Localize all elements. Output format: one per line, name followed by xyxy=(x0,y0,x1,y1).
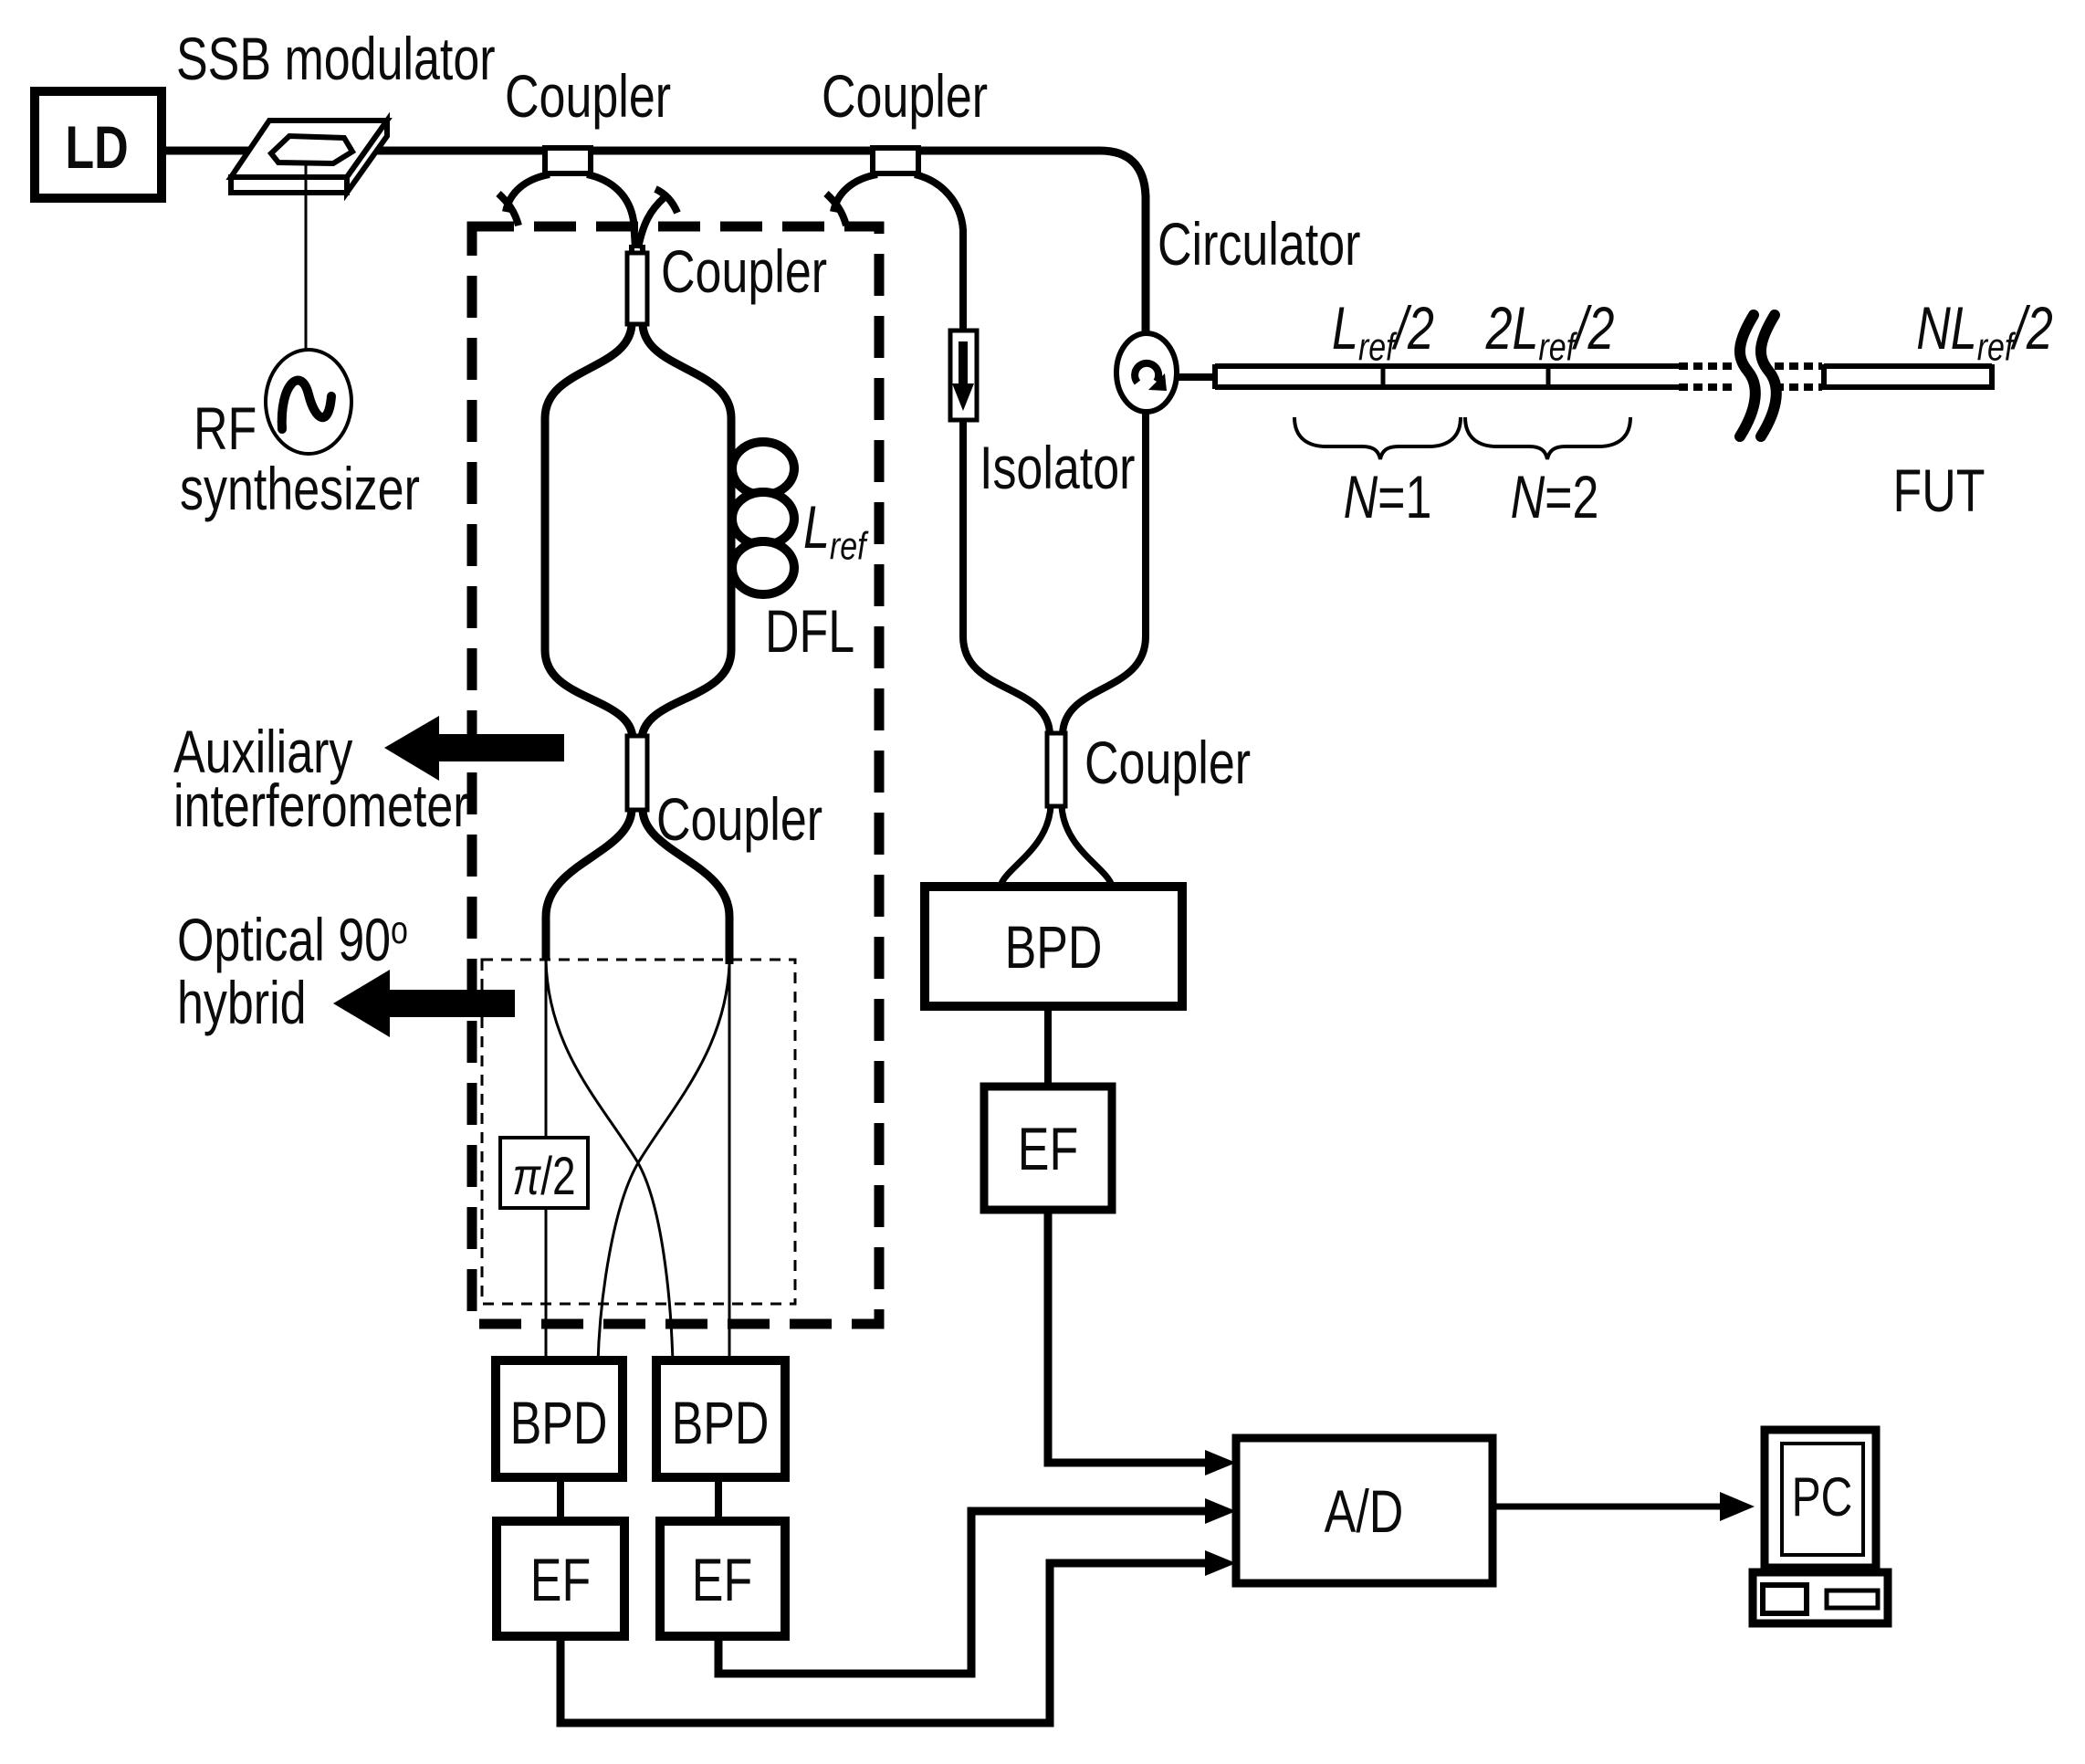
wire: BPD-EF right xyxy=(1044,1006,1052,1087)
svg-text:LD: LD xyxy=(65,113,128,181)
label: PC xyxy=(1792,1466,1853,1528)
wire: BPD-EF left xyxy=(557,1477,564,1521)
label: RF xyxy=(194,394,257,462)
label: Isolator xyxy=(980,434,1135,501)
wire: hybrid thin straight right xyxy=(728,964,731,1363)
auxiliary interferometer dashed box xyxy=(472,226,879,1324)
FUT dotted section xyxy=(1679,366,1822,387)
wire: aux loop right side xyxy=(642,324,731,738)
BPD right box xyxy=(925,887,1182,1006)
svg-text:Isolator: Isolator xyxy=(980,434,1135,501)
wire: cut fiber hook xyxy=(655,189,677,213)
coupler C2 on main line xyxy=(873,148,918,173)
FUT divider 2 xyxy=(1546,364,1551,390)
label: Coupler aux bottom xyxy=(656,785,822,853)
isolator arrow xyxy=(959,341,968,383)
svg-text:RF: RF xyxy=(194,394,257,462)
wire: aux bottom coupler neck xyxy=(631,730,644,813)
wire: EF left to A/D bottom input xyxy=(561,1563,1209,1723)
label: SSB modulator xyxy=(176,25,496,92)
PC base xyxy=(1753,1572,1888,1623)
wire: hybrid crossing left-to-right xyxy=(546,960,673,1363)
svg-text:BPD: BPD xyxy=(672,1389,770,1456)
label: EF right xyxy=(1018,1115,1078,1182)
wire: EF right to A/D top input xyxy=(1048,1210,1209,1463)
wire: A/D to PC xyxy=(1493,1504,1722,1510)
wire: circulator down branch to coupler xyxy=(1063,411,1146,734)
SSB modulator side face xyxy=(347,121,387,193)
wire: cut fiber at aux coupler input xyxy=(638,197,665,248)
label: interferometer xyxy=(173,772,469,839)
wire: coupler2 left hook xyxy=(826,194,846,226)
wire: coupler1 right arc into aux coupler xyxy=(587,174,635,248)
PC monitor xyxy=(1765,1430,1876,1568)
svg-text:Coupler: Coupler xyxy=(661,237,827,305)
wire: coupler2 right arc down to isolator branch xyxy=(915,174,1050,734)
coupler (aux bottom) xyxy=(627,736,647,810)
BPD mid box xyxy=(656,1360,785,1477)
label: Lref/2 xyxy=(1332,294,1434,369)
wire: hybrid thin straight left xyxy=(545,960,548,1363)
label: Coupler above C2 xyxy=(822,62,988,130)
label: hybrid xyxy=(177,969,307,1036)
DFL coil ellipse 3 xyxy=(732,541,794,594)
wire: EF mid to A/D middle input xyxy=(718,1511,1209,1674)
svg-text:N=2: N=2 xyxy=(1511,463,1599,530)
RF sine symbol xyxy=(282,381,331,429)
wire: coupler2 left drop arc xyxy=(833,174,877,212)
svg-text:Coupler: Coupler xyxy=(505,62,671,130)
wire: coupler1 left hook xyxy=(498,194,519,226)
label: NLref/2 xyxy=(1916,294,2053,369)
label: BPD left xyxy=(510,1389,608,1456)
svg-text:N=1: N=1 xyxy=(1344,463,1432,530)
DFL coil ellipse 1 xyxy=(732,442,794,495)
label: A/D xyxy=(1325,1477,1404,1545)
svg-text:hybrid: hybrid xyxy=(177,969,307,1036)
svg-text:FUT: FUT xyxy=(1892,457,1985,524)
label: L_ref xyxy=(803,493,869,568)
label: EF left xyxy=(530,1546,591,1613)
circulator arrow symbol xyxy=(1135,363,1158,383)
svg-text:Coupler: Coupler xyxy=(1084,729,1251,796)
label: synthesizer xyxy=(180,455,420,522)
EF mid box xyxy=(660,1521,785,1636)
optical 90 hybrid dotted box xyxy=(482,960,795,1304)
FUT break symbol xyxy=(1740,315,1755,436)
wire: flare into BPD right xyxy=(1001,806,1051,886)
svg-text:BPD: BPD xyxy=(510,1389,608,1456)
brace N=2 xyxy=(1465,417,1630,459)
svg-text:Optical 90o: Optical 90o xyxy=(177,906,408,973)
label: EF mid xyxy=(692,1546,752,1613)
label: BPD mid xyxy=(672,1389,770,1456)
svg-text:π/2: π/2 xyxy=(512,1148,575,1206)
label: Auxiliary xyxy=(173,718,353,785)
svg-text:BPD: BPD xyxy=(1005,913,1103,981)
wire: RF feed line xyxy=(305,164,308,352)
EF right box xyxy=(984,1087,1112,1210)
DFL coil ellipse 2 xyxy=(732,492,794,545)
EF left box xyxy=(497,1521,624,1636)
coupler C1 on main line xyxy=(545,148,591,173)
wire: hybrid thick flare right xyxy=(643,810,729,964)
label: Coupler aux top xyxy=(661,237,827,305)
label: BPD right xyxy=(1005,913,1103,981)
svg-text:synthesizer: synthesizer xyxy=(180,455,420,522)
svg-text:Circulator: Circulator xyxy=(1158,210,1360,278)
svg-text:EF: EF xyxy=(692,1546,752,1613)
coupler (aux top) xyxy=(627,253,647,324)
svg-text:EF: EF xyxy=(1018,1115,1078,1182)
label: Coupler above C1 xyxy=(505,62,671,130)
BPD left box xyxy=(496,1360,623,1477)
SSB racetrack waveguide xyxy=(271,136,352,163)
label: 2Lref/2 xyxy=(1485,294,1615,369)
label: DFL xyxy=(765,597,854,665)
wire: circulator to FUT stub xyxy=(1177,373,1215,381)
isolator box xyxy=(950,331,977,420)
label: N=2 xyxy=(1511,463,1599,530)
brace N=1 xyxy=(1294,417,1461,459)
FUT divider 1 xyxy=(1381,364,1386,390)
wire: right coupler neck lines xyxy=(1050,726,1063,811)
label: Circulator xyxy=(1158,210,1360,278)
wire: BPD-EF mid xyxy=(715,1477,722,1521)
wire: hybrid thick flare left xyxy=(546,810,632,960)
wire: hybrid crossing right-to-left xyxy=(598,964,729,1363)
circulator circle xyxy=(1116,333,1177,412)
pi/2 phase shifter box xyxy=(500,1138,588,1208)
FUT bar left section outline xyxy=(1215,364,1679,389)
svg-text:DFL: DFL xyxy=(765,597,854,665)
LD box xyxy=(35,91,162,198)
svg-text:interferometer: interferometer xyxy=(173,772,469,839)
label: N=1 xyxy=(1344,463,1432,530)
svg-text:EF: EF xyxy=(530,1546,591,1613)
svg-text:Coupler: Coupler xyxy=(822,62,988,130)
A/D box xyxy=(1236,1438,1493,1583)
wire: main fiber LD to circulator xyxy=(162,151,1146,336)
label: Coupler right chain xyxy=(1084,729,1251,796)
SSB modulator slab top face xyxy=(231,121,387,177)
wire: aux loop left side xyxy=(545,324,633,738)
arrow: auxiliary interferometer pointer xyxy=(384,716,439,781)
wire: aux coupler neck xyxy=(632,245,643,327)
svg-text:SSB modulator: SSB modulator xyxy=(176,25,496,92)
SSB modulator front face xyxy=(231,177,347,193)
coupler (right chain) xyxy=(1047,733,1065,806)
svg-text:A/D: A/D xyxy=(1325,1477,1404,1545)
svg-text:Coupler: Coupler xyxy=(656,785,822,853)
label: FUT xyxy=(1892,457,1985,524)
svg-text:PC: PC xyxy=(1792,1466,1853,1528)
arrow: optical hybrid pointer xyxy=(333,970,390,1037)
RF synthesizer circle xyxy=(266,350,351,454)
wire: coupler1 left drop arc xyxy=(506,174,550,212)
label: Optical 90 xyxy=(177,906,408,973)
FUT bar right section xyxy=(1824,364,1992,390)
